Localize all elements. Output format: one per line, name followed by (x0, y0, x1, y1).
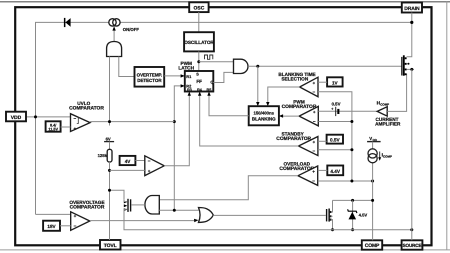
node sense tap (408, 63, 410, 65)
sense tap stub (407, 63, 409, 65)
node OR input junction (173, 209, 176, 212)
OR gate U9 (199, 208, 214, 223)
AND gate U1 (points up, drives on/off switch) (107, 42, 122, 57)
OVERTEMP detector box (135, 67, 165, 87)
wire: comp node to zener rail (333, 199, 373, 201)
wire: U3 output to blanking box top (268, 87, 300, 104)
svg-text:−: − (313, 90, 316, 95)
svg-text:−: − (148, 158, 151, 163)
svg-text:DRAIN: DRAIN (404, 6, 420, 12)
wire: S node to AND gate top input (199, 61, 234, 63)
svg-text:VDD: VDD (11, 115, 22, 121)
output MOSFET Q3 (401, 55, 406, 75)
svg-text:OSCILLATOR: OSCILLATOR (184, 40, 214, 45)
svg-text:COMPARATOR: COMPARATOR (69, 106, 104, 112)
transistor Q2 (comp clamp MOSFET) (326, 200, 333, 229)
svg-text:0.5V: 0.5V (332, 101, 341, 106)
wire: U12 output to OR gate bottom input (90, 220, 196, 222)
svg-text:1V: 1V (332, 81, 339, 86)
wire: resistor to TOVL pin (109, 162, 111, 240)
wire: U4 output into blanking box (281, 115, 299, 117)
svg-text:STANDBY: STANDBY (281, 131, 304, 136)
svg-text:150/400ns: 150/400ns (254, 110, 275, 115)
pin OSC (189, 2, 208, 12)
svg-text:18V: 18V (47, 224, 56, 229)
value box 8.4/11.5V (46, 121, 61, 131)
svg-text:6V: 6V (106, 136, 111, 141)
value box 1V (327, 77, 343, 86)
comparator U11 (4V) (145, 156, 164, 176)
wire: and gate output to switch (113, 30, 115, 42)
wire: VDD bus top-left column and top bus to drain (36, 22, 412, 214)
wire: drain pin down to Q3 (407, 13, 412, 57)
svg-text:LATCH: LATCH (178, 66, 194, 71)
svg-text:−: − (74, 224, 77, 229)
svg-text:11.5V: 11.5V (48, 128, 58, 132)
wire source column to SOURCE pin (411, 69, 413, 240)
svg-text:R5: R5 (207, 88, 212, 92)
node standby minus junction (350, 148, 353, 151)
wire: U8 bottom input / OR top input from UVLO node (159, 209, 198, 211)
pin VDD (6, 112, 26, 122)
wire: U8 output to Q1 gate (131, 204, 145, 206)
150/400ns blanking box (249, 106, 279, 125)
wire: R2 from UVLO node column (174, 86, 182, 210)
resistor R 125k (107, 149, 112, 162)
svg-text:COMPARATOR: COMPARATOR (70, 205, 105, 211)
svg-text:OVERVOLTAGE: OVERVOLTAGE (69, 200, 104, 205)
node comp column junction (371, 199, 374, 202)
transistor Q1 (tovl MOSFET, mirrored) (124, 199, 131, 212)
wire: VDD pin to UVLO minus (26, 116, 71, 118)
value box 18V (43, 221, 60, 231)
svg-text:−: − (312, 149, 315, 154)
node divider junction (108, 169, 111, 172)
svg-text:COMPARATOR: COMPARATOR (276, 136, 311, 142)
svg-text:DETECTOR: DETECTOR (137, 78, 162, 83)
wire: OSC pin to oscillator (198, 12, 200, 32)
node zener bottom junction (351, 228, 354, 231)
wire: U4 minus to comp column (318, 121, 352, 123)
svg-text:4V: 4V (125, 159, 132, 164)
node zener top junction (351, 199, 354, 202)
wire: U1 right input to overtemp detector (119, 57, 135, 77)
svg-text:R1: R1 (186, 74, 192, 79)
svg-text:SOURCE: SOURCE (403, 243, 422, 248)
wire: UVLO output (90, 121, 174, 123)
current source I_COMP (368, 149, 377, 158)
pin COMP (362, 240, 382, 249)
wire: Q to AND gate bottom input (213, 72, 233, 82)
node Q3 source junction (410, 68, 413, 71)
value box 0.5V (327, 135, 343, 144)
wire: Q3 source to SOURCE pin column (407, 68, 414, 70)
svg-text:AMPLIFIER: AMPLIFIER (375, 121, 401, 126)
svg-text:PWM: PWM (293, 99, 305, 104)
zener diode VR1 4.5V (352, 200, 354, 229)
wire: blanking output to R5 (209, 94, 249, 116)
wire: U11 output to R3 (164, 94, 189, 166)
node overload minus junction (350, 180, 353, 183)
svg-text:4.5V: 4.5V (359, 212, 368, 217)
on/off switch contacts (109, 19, 120, 26)
svg-text:−: − (312, 179, 315, 184)
left AND gate U8 (points left) (145, 196, 159, 215)
clock pulses symbol (205, 55, 213, 59)
wire: oscillator to PWM latch S with node (198, 51, 200, 71)
wire: U1 left input down to UVLO output node (109, 57, 111, 126)
svg-text:SELECTION: SELECTION (281, 76, 308, 81)
svg-text:COMP: COMP (383, 154, 392, 158)
svg-text:Q: Q (210, 79, 213, 84)
pin SOURCE (402, 240, 423, 249)
wire: 4V comp plus from resistor node (110, 169, 145, 171)
wire: current amp input from MOSFET source (387, 74, 406, 111)
svg-text:0.5V: 0.5V (330, 138, 341, 143)
wire: overtemp to R1 with arrow (164, 75, 182, 77)
node PWM minus junction (350, 120, 353, 123)
node source bus junction (410, 228, 413, 231)
node gate-drive junction (256, 65, 259, 68)
node Q2 source junction (331, 228, 334, 231)
svg-text:TOVL: TOVL (104, 243, 117, 249)
svg-text:OSC: OSC (193, 6, 204, 12)
node UVLO output junction (108, 120, 111, 123)
wire: U6 minus to comp node (318, 180, 373, 182)
diode D1 top-left (64, 18, 71, 27)
source bottom bus (110, 190, 125, 200)
svg-text:−: − (73, 116, 76, 121)
svg-text:COMPARATOR: COMPARATOR (282, 104, 317, 110)
value box 4.4V (327, 166, 343, 176)
pin TOVL (100, 240, 121, 250)
node Q1 drain junction (108, 189, 111, 192)
node drain bus junction (410, 21, 413, 24)
wire: U5 minus to comp column (318, 149, 352, 151)
pin DRAIN (402, 3, 422, 13)
wire: gate node down to blanking box (257, 66, 259, 104)
wire: U4 plus through battery to current amp output (318, 110, 377, 112)
svg-text:ON/OFF: ON/OFF (123, 27, 140, 32)
node R2/UVLO junction (173, 120, 176, 123)
svg-text:−: − (313, 119, 316, 124)
wire: rail to current source to COMP pin (372, 142, 374, 241)
wire: OR output to Q2 gate (213, 214, 326, 216)
wire: U3 minus to comp column (318, 92, 352, 181)
node S clock junction (197, 60, 200, 63)
svg-text:S: S (196, 71, 199, 76)
wire: U6 output to left AND gate top input (159, 176, 298, 200)
value box 4V (120, 156, 136, 165)
flip-flop FF box (185, 71, 214, 92)
svg-text:OVERLOAD: OVERLOAD (284, 162, 311, 167)
node comp pin junction (371, 180, 374, 183)
wire: U5 output to R4 (200, 94, 299, 146)
AND gate U2 (drives output MOSFET) (234, 59, 249, 73)
wire: U2 output to MOSFET gate (248, 65, 402, 67)
OSCILLATOR box (184, 32, 214, 51)
svg-text:R3: R3 (187, 88, 192, 92)
wire: overvoltage plus input (36, 213, 71, 215)
svg-text:UVLO: UVLO (77, 101, 90, 106)
node VDD bus junction (34, 115, 37, 118)
svg-text:COMP: COMP (365, 243, 380, 249)
svg-text:+: + (331, 107, 333, 111)
svg-text:BLANKING: BLANKING (252, 117, 276, 122)
svg-text:4.4V: 4.4V (330, 169, 341, 174)
svg-text:FF: FF (196, 79, 202, 84)
svg-text:125k: 125k (98, 153, 108, 158)
